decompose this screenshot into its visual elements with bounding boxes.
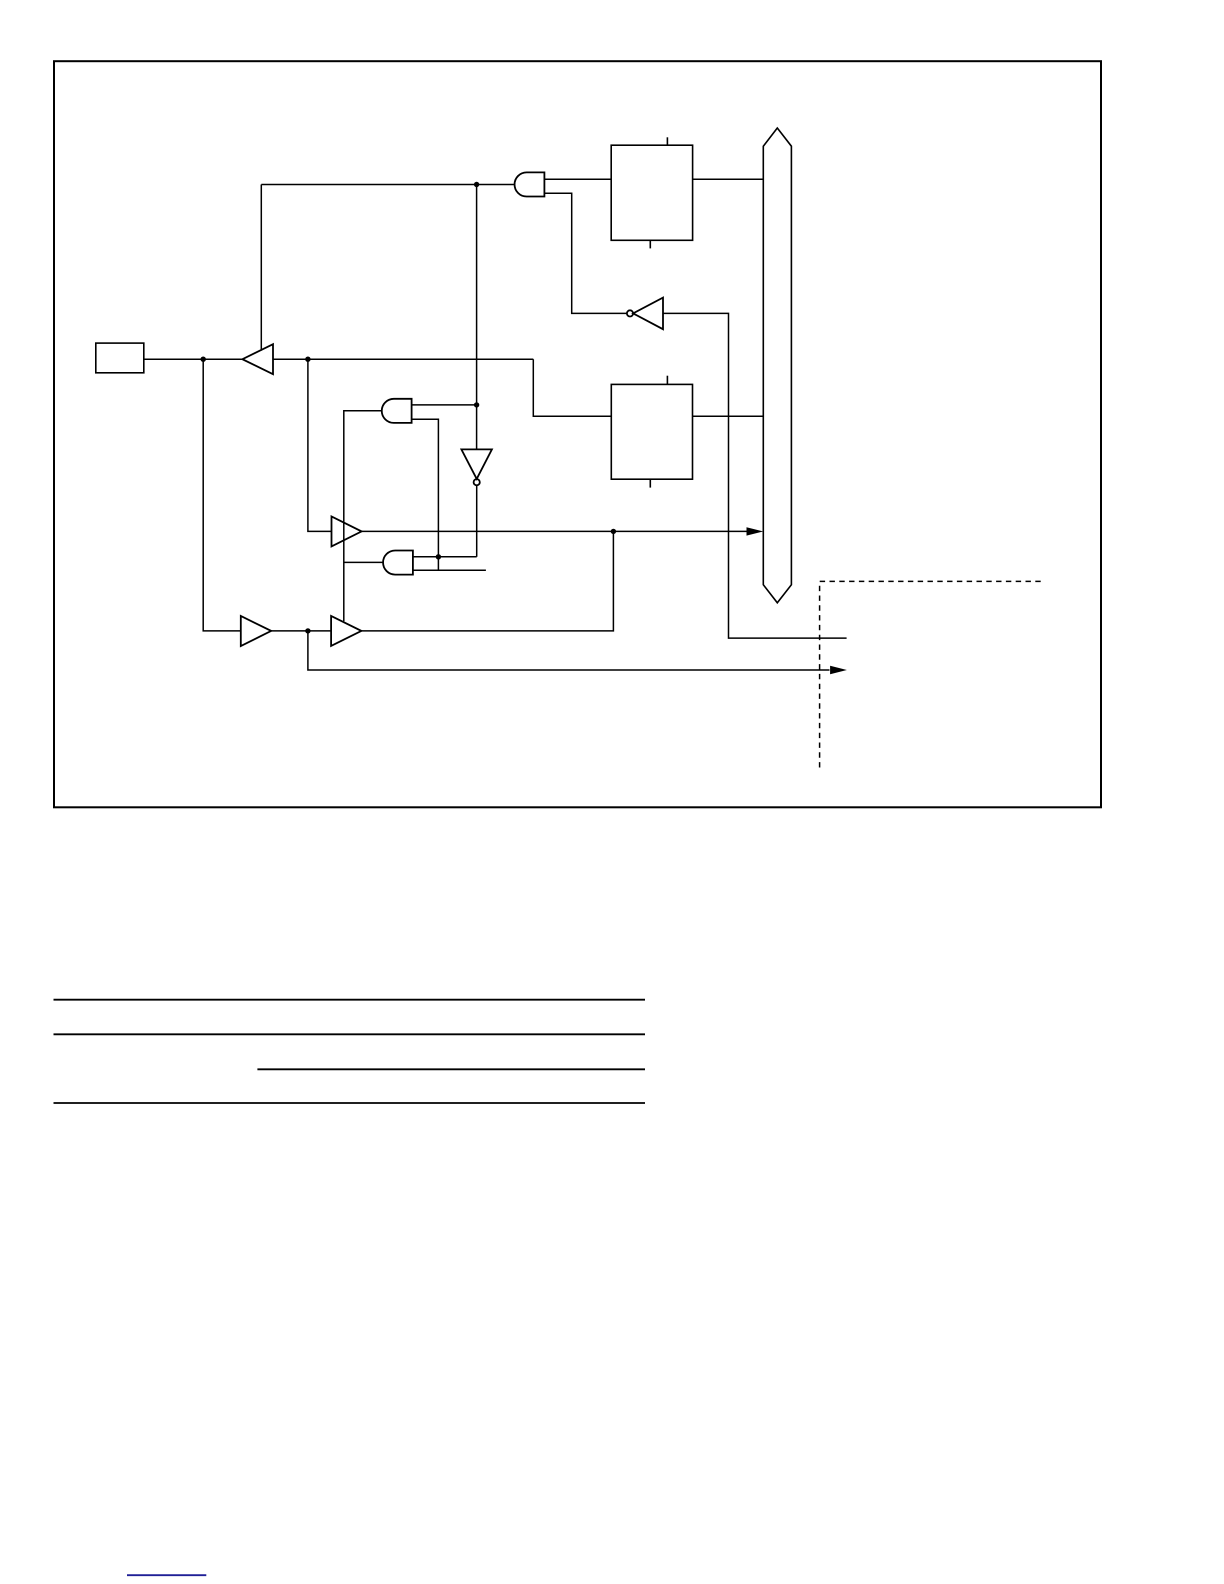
table rule 3	[257, 1068, 645, 1070]
flip-flop FF2	[611, 376, 692, 488]
node C junction dot	[305, 357, 310, 362]
table rule 1	[54, 999, 646, 1001]
wire vertical trunk node B down to inverter U3	[476, 185, 478, 450]
schematic frame	[54, 61, 1101, 807]
wire T1 base input net	[273, 358, 533, 360]
pad box P1	[96, 343, 144, 373]
bus symbol	[763, 128, 791, 603]
node A junction dot	[201, 357, 206, 362]
wire A3 input 1 to inverter U3 output	[413, 556, 477, 558]
wire enable stub into T1	[260, 185, 262, 351]
wire T4 output up to node D	[361, 531, 613, 631]
wire T3 output to T4 input	[271, 630, 331, 632]
footer link underline	[127, 1574, 206, 1576]
wire A3 output stub	[344, 561, 384, 563]
wire to FF2 D input	[533, 359, 611, 416]
node F junction dot	[436, 554, 441, 559]
flip-flop FF1	[611, 137, 692, 248]
AND gate A3	[383, 551, 413, 575]
wire node C down to buffer T2	[308, 359, 332, 531]
wire A1 input 2 to inverter U2 output	[544, 193, 627, 313]
wire A2 input 2 vertical	[412, 419, 439, 570]
node D junction dot	[611, 529, 616, 534]
wire top feedback net	[261, 184, 514, 186]
wire node A down to T3	[203, 359, 241, 631]
wire FF2 Q to bus	[693, 415, 764, 417]
arrowhead into bus	[747, 527, 764, 535]
node G junction dot	[305, 628, 310, 633]
buffer T4 (right-pointing)	[331, 616, 361, 646]
wire A2 output to A3 output rail	[344, 411, 382, 621]
wire A2 input 1 to trunk	[412, 404, 477, 406]
AND gate A1	[515, 172, 545, 196]
inverter U2 (left-pointing)	[627, 298, 663, 330]
buffer T3 (right-pointing)	[241, 616, 271, 646]
AND gate A2	[382, 399, 412, 423]
wire A3 input 2 stub	[413, 569, 486, 571]
node E junction dot	[474, 402, 479, 407]
buffer T2 (right-pointing)	[332, 516, 362, 546]
buffer T1 (left-pointing output driver)	[242, 344, 273, 374]
wire U3 output down to A3 input	[476, 485, 478, 557]
arrowhead lower output	[830, 666, 847, 674]
table rule 2	[54, 1033, 646, 1035]
table rule 4	[54, 1102, 646, 1104]
wire A1 input 1 to FF1	[544, 178, 611, 180]
wire T2 output to bus	[362, 530, 747, 532]
inverter U3 (down-pointing)	[461, 449, 492, 485]
wire P1 to node A	[144, 358, 243, 360]
wire FF1 Q to bus	[693, 178, 764, 180]
wire node G to lower arrow net	[308, 631, 830, 670]
wire U2 input net	[663, 313, 847, 638]
dashed expansion boundary	[820, 581, 1041, 771]
node B junction dot	[474, 182, 479, 187]
